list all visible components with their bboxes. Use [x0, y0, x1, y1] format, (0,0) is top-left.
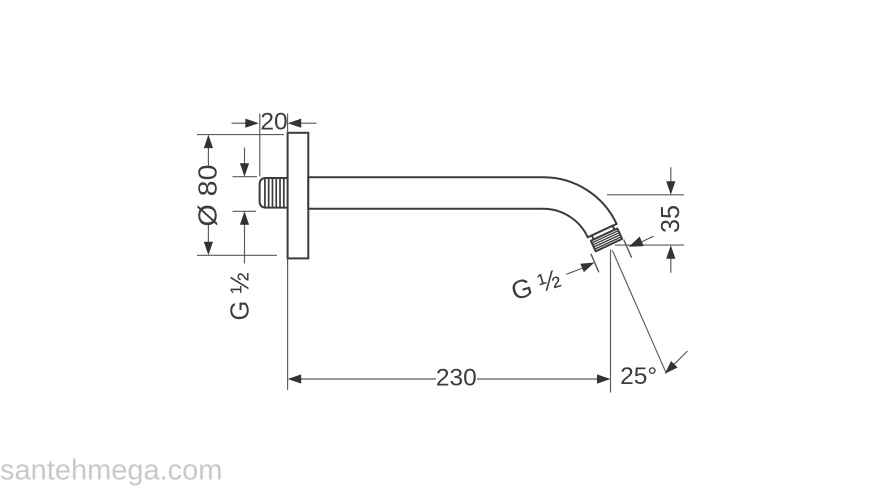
thread dia: upper arrow	[240, 163, 249, 177]
svg-text:25°: 25°	[620, 363, 657, 390]
pipe body with bend	[308, 177, 616, 237]
dim 20: right dimension line	[296, 122, 317, 124]
G 1/2 right: tick	[591, 254, 599, 272]
dim 20: left arrow	[245, 119, 258, 128]
dim D80: top extension line	[197, 134, 284, 136]
svg-text:20: 20	[260, 109, 287, 136]
dim 35: tip reference tick	[624, 240, 632, 258]
dim 20: right arrow	[288, 119, 302, 128]
angle 25: leader arrow	[665, 361, 678, 374]
dim D80: bottom arrow	[204, 242, 213, 256]
threaded tip	[591, 229, 622, 252]
dim 35: tip reference arrow	[629, 237, 644, 247]
svg-text:santehmega.com: santehmega.com	[0, 455, 222, 487]
dim 20: extension line left	[259, 114, 261, 177]
G 1/2 right: leader line	[567, 268, 583, 274]
angle 25: leader tail	[674, 351, 687, 364]
wall flange	[288, 133, 309, 259]
thread dia: upper extension line	[233, 176, 258, 178]
angle 25: slanted line	[612, 250, 666, 373]
dim 35: tip reference tail	[642, 236, 654, 242]
thread dia: lower extension line	[233, 210, 257, 212]
G 1/2 right: leader arrow	[580, 263, 594, 273]
svg-text:Ø 80: Ø 80	[193, 165, 223, 227]
dim 35: lower arrow	[666, 245, 675, 259]
tip relief groove	[592, 226, 615, 240]
dim D80: dimension line segments	[207, 147, 209, 243]
dim 230: left extension line	[287, 258, 289, 390]
dim 230: left arrow	[288, 374, 302, 383]
dim 35: lower extension line	[615, 244, 684, 246]
thread dia: lower arrow	[240, 211, 249, 225]
dim 35: upper arrow	[666, 181, 675, 195]
dim 230: dimension line	[300, 378, 597, 380]
svg-text:35: 35	[655, 205, 685, 233]
thread dia: upper arrow line	[244, 148, 246, 165]
svg-text:230: 230	[436, 365, 477, 392]
dim 35: dimension line segments	[670, 167, 672, 273]
dim D80: top arrow	[204, 135, 213, 149]
dim 20: extension line right (above flange)	[287, 114, 289, 133]
dim 230: right extension line	[610, 250, 612, 393]
dim 35: upper extension line	[607, 194, 684, 196]
svg-text:G ½: G ½	[227, 272, 255, 320]
dim 230: right arrow	[597, 374, 611, 383]
threaded wall connector	[260, 178, 289, 208]
dim D80: bottom extension line	[197, 254, 277, 256]
thread dia: lower arrow line	[244, 224, 246, 264]
dim 20: left dimension line	[232, 122, 251, 124]
